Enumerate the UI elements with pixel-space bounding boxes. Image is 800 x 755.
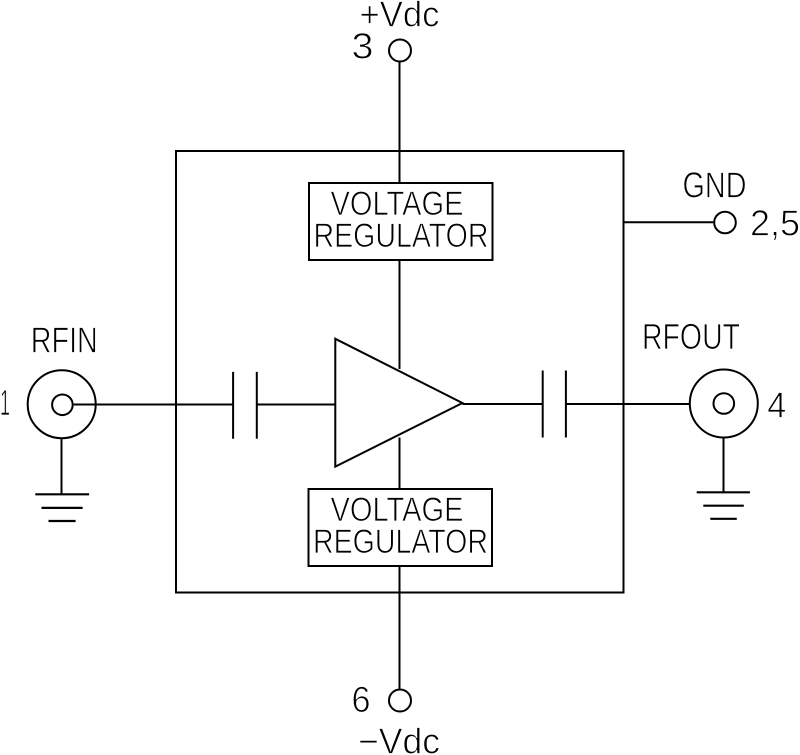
- capacitor C2 (output blocking): [543, 371, 566, 438]
- pin numbers 2,5: [750, 203, 800, 244]
- pin 3 terminal (+Vdc): [389, 40, 411, 62]
- pin number 4: [767, 385, 786, 426]
- svg-text:6: 6: [352, 679, 371, 720]
- svg-text:1: 1: [0, 382, 10, 423]
- ground symbol (RFIN side): [35, 494, 89, 521]
- svg-text:REGULATOR: REGULATOR: [314, 217, 489, 255]
- label -Vdc: [358, 721, 440, 755]
- svg-text:4: 4: [767, 385, 786, 426]
- svg-text:GND: GND: [683, 165, 747, 206]
- wire C2 to connector J2: [566, 403, 713, 405]
- wire C1 to amplifier input: [257, 404, 336, 406]
- connector J2 RFOUT (coax): [690, 370, 758, 438]
- wire amplifier to U2: [399, 438, 401, 490]
- svg-text:RFIN: RFIN: [31, 320, 98, 361]
- pin 6 terminal (-Vdc): [389, 690, 411, 712]
- label RFIN: [31, 320, 98, 361]
- connector J1 RFIN (coax): [28, 370, 96, 438]
- label RFOUT: [642, 316, 740, 357]
- wire U2 to pin 6: [399, 566, 401, 689]
- svg-text:−Vdc: −Vdc: [358, 721, 440, 755]
- wire GND stub: case to pin 2,5: [623, 221, 713, 223]
- pin number 1: [0, 382, 10, 423]
- pin 2,5 terminal (GND): [714, 212, 736, 234]
- label VOLTAGE REGULATOR (U2): [313, 491, 488, 561]
- label +Vdc: [360, 0, 440, 35]
- wire U1 to amplifier: [399, 260, 401, 369]
- module case outline: [176, 151, 624, 593]
- svg-text:2,5: 2,5: [750, 203, 800, 244]
- pin number 3: [352, 26, 374, 67]
- svg-text:RFOUT: RFOUT: [642, 316, 740, 357]
- label VOLTAGE REGULATOR (U1): [314, 185, 489, 255]
- capacitor C1 (input blocking): [233, 372, 257, 439]
- pin number 6: [352, 679, 371, 720]
- label GND: [683, 165, 747, 206]
- ground symbol (RFOUT side): [697, 492, 750, 519]
- wire J1 shell to ground: [61, 439, 63, 494]
- voltage regulator U1 (top) box: [309, 183, 493, 260]
- voltage regulator U2 (bottom) box: [309, 489, 493, 566]
- op-amp A1 amplifier triangle: [335, 339, 462, 467]
- svg-text:3: 3: [352, 26, 374, 67]
- svg-text:REGULATOR: REGULATOR: [313, 523, 488, 561]
- wire amplifier output to capacitor C2: [462, 403, 542, 405]
- wire J2 shell to ground: [723, 438, 725, 492]
- wire J1 center pin to capacitor C1: [74, 404, 233, 406]
- wire +Vdc feed: pin 3 to regulator U1: [399, 62, 401, 183]
